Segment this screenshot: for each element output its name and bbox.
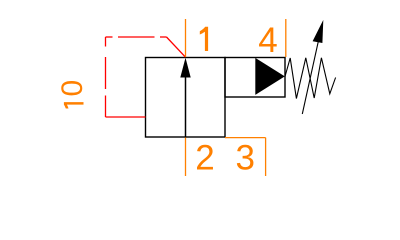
pilot line diagonal (red) bbox=[167, 37, 186, 57]
svg-text:4: 4 bbox=[258, 21, 277, 60]
pilot line bottom horizontal (red) bbox=[106, 116, 146, 118]
port 4 leader line bbox=[285, 19, 287, 57]
pilot line top corner dash (red) bbox=[106, 36, 113, 38]
value label 10: digit 1 (rotated) bbox=[64, 102, 84, 108]
port 3 leader horizontal bbox=[225, 137, 266, 139]
flow arrow head bbox=[180, 58, 190, 78]
svg-text:2: 2 bbox=[195, 139, 214, 178]
pilot line vertical dash (red) bbox=[105, 57, 107, 89]
pilot stage box bbox=[225, 58, 285, 98]
flow arrow shaft bbox=[185, 74, 187, 137]
pilot line top short dash (red) bbox=[160, 36, 167, 38]
port 1 leader line bbox=[185, 19, 187, 57]
pilot line top long dash (red) bbox=[118, 36, 155, 38]
port 2 leader line bbox=[185, 138, 187, 177]
svg-text:0: 0 bbox=[56, 80, 89, 97]
port label 1 bbox=[200, 27, 208, 51]
adjustment arrow shaft bbox=[302, 36, 319, 114]
spring bbox=[285, 58, 336, 99]
port 3 leader vertical bbox=[265, 138, 267, 176]
pilot line top corner leg (red) bbox=[105, 37, 107, 47]
check valve triangle bbox=[255, 58, 284, 95]
pilot line bottom corner leg (red) bbox=[105, 96, 107, 118]
adjustment arrow head bbox=[313, 20, 324, 43]
valve body V1 (main box) bbox=[146, 58, 226, 138]
svg-text:3: 3 bbox=[236, 139, 255, 178]
